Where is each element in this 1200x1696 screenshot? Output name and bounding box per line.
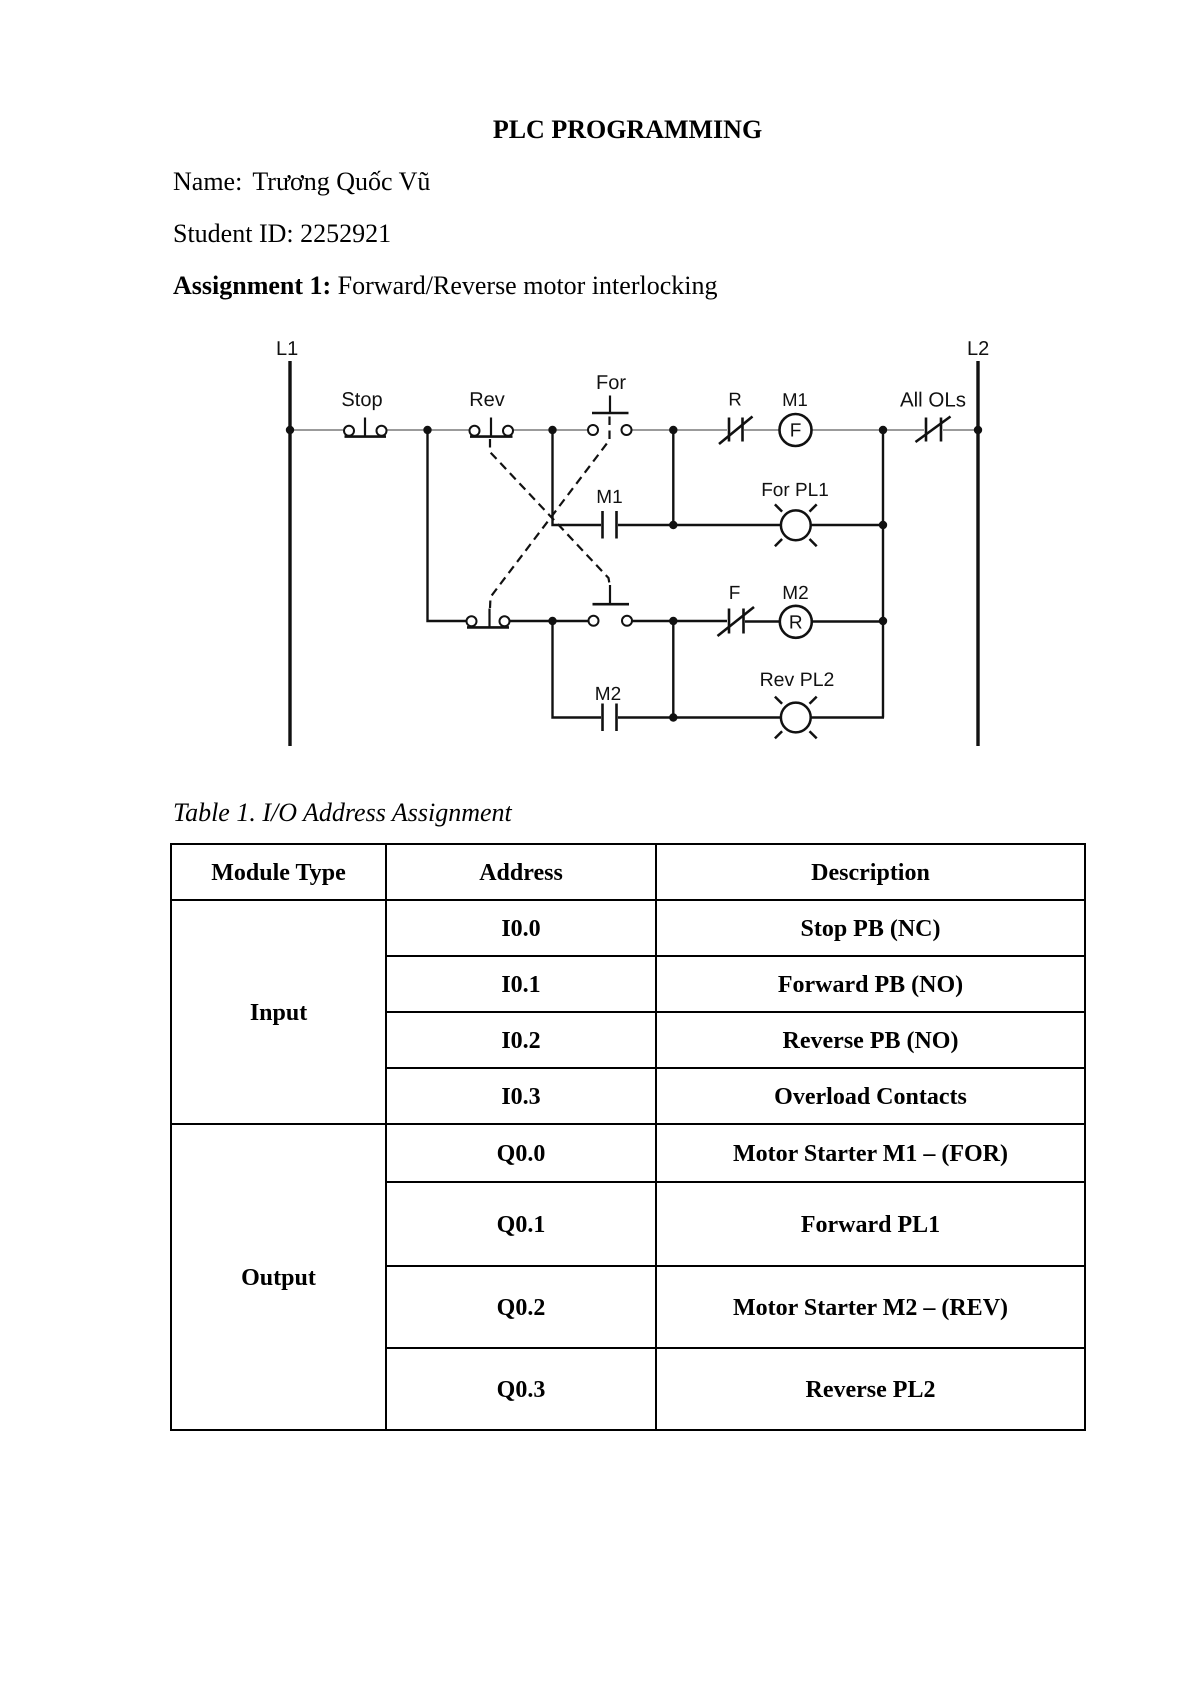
wire contact M1 to node J5 [618, 524, 673, 526]
wire node J7 to contact Rev2 [553, 620, 589, 622]
wire node C to contact R [673, 429, 727, 431]
wire node D down to rung 4 [882, 430, 884, 718]
node J8 junction [669, 617, 677, 625]
label M1 contact [596, 487, 622, 508]
wire coil M2 to node J9 [812, 620, 883, 622]
label M2 [782, 583, 808, 604]
svg-text:M2: M2 [782, 583, 808, 604]
svg-text:M1: M1 [782, 389, 808, 410]
wire node J8 to contact F [674, 620, 727, 622]
power rail L1 [288, 361, 291, 746]
svg-text:For: For [596, 372, 626, 394]
title [171, 117, 1084, 143]
wire node J10 to lamp Rev PL2 [674, 716, 781, 718]
node L2 junction [974, 426, 982, 434]
svg-text:M2: M2 [595, 684, 621, 705]
label Rev PL2 [760, 669, 835, 691]
wire lamp Rev PL2 to rail joint [811, 716, 884, 718]
coil M1 [780, 414, 812, 446]
assignment line [173, 273, 717, 299]
wire Stop to node A [387, 429, 428, 431]
label Rev [469, 389, 505, 411]
label For [596, 372, 626, 394]
pushbutton Rev2 NO contact [589, 585, 633, 626]
label For PL1 [761, 480, 829, 501]
student id line [173, 221, 391, 247]
wire lamp For PL1 to node J6 [811, 524, 883, 526]
wire All OLs to L2 [943, 429, 978, 431]
wire node A to Rev [428, 429, 469, 431]
wire node D to All OLs [883, 429, 924, 431]
wire node C down to node J5 [672, 430, 674, 525]
svg-text:L1: L1 [276, 338, 298, 360]
I/O address table [170, 843, 1086, 1431]
node J7 junction [548, 617, 556, 625]
wire contact R to coil M1 [744, 429, 780, 431]
svg-text:Rev: Rev [469, 389, 505, 411]
mechanical link For to For2 (dashed) [490, 417, 610, 609]
node L1 junction [286, 426, 294, 434]
node J6 junction [879, 521, 887, 529]
label All OLs [900, 389, 966, 412]
node A junction [423, 426, 431, 434]
contact M2 NO seal-in [603, 704, 617, 732]
label M1 [782, 389, 808, 410]
coil M2 [780, 606, 812, 638]
node B junction [548, 426, 556, 434]
contact All OLs NC [916, 417, 951, 443]
wire node B to For [553, 429, 588, 431]
contact R NC [719, 417, 753, 445]
node D junction [879, 426, 887, 434]
svg-text:All OLs: All OLs [900, 389, 966, 412]
wire coil M1 to node D [812, 429, 883, 431]
svg-text:R: R [728, 389, 741, 410]
lamp For PL1 [775, 504, 817, 546]
contact F NC [718, 607, 755, 636]
svg-text:M1: M1 [596, 487, 622, 508]
pushbutton For2 NC contact [467, 609, 510, 628]
wire Rev to node B [513, 429, 553, 431]
power rail L2 [976, 361, 979, 746]
wire L1 to Stop [290, 429, 343, 431]
label M2 contact [595, 684, 621, 705]
svg-text:F: F [729, 583, 741, 604]
wire contact M2 to node J10 [618, 716, 674, 718]
svg-text:Rev PL2: Rev PL2 [760, 669, 835, 691]
svg-text:L2: L2 [967, 338, 989, 360]
wire For to node C [632, 429, 673, 431]
label F [729, 583, 741, 604]
lamp Rev PL2 [775, 697, 817, 739]
pushbutton Stop NC [344, 418, 387, 437]
mechanical link Rev to Rev2 (dashed) [490, 439, 610, 584]
label L1 [276, 338, 298, 360]
node J10 junction [669, 713, 677, 721]
label R [728, 389, 741, 410]
wire node J7 down to rung 4 [553, 621, 602, 718]
wire contact F to coil M2 [745, 620, 780, 622]
name line [173, 169, 430, 195]
pushbutton Rev NC contact [470, 418, 514, 437]
node J5 junction [669, 521, 677, 529]
table caption [173, 800, 512, 826]
label L2 [967, 338, 989, 360]
wire node J5 to lamp For PL1 [673, 524, 781, 526]
svg-text:Stop: Stop [341, 389, 382, 411]
wire node B down to rung 2 [553, 430, 602, 525]
pushbutton For NO contact [588, 396, 632, 436]
svg-text:R: R [789, 613, 803, 634]
node C junction [669, 426, 677, 434]
wire node A down to rung 3 [428, 430, 468, 621]
svg-text:F: F [790, 421, 802, 442]
svg-text:For PL1: For PL1 [761, 480, 829, 501]
wire contact Rev2 to node J8 [632, 620, 674, 622]
wire node J8 down to node J10 [672, 621, 674, 718]
label Stop [341, 389, 382, 411]
node J9 junction [879, 617, 887, 625]
wire contact For2 to node J7 [510, 620, 553, 622]
contact M1 NO seal-in [603, 511, 617, 539]
